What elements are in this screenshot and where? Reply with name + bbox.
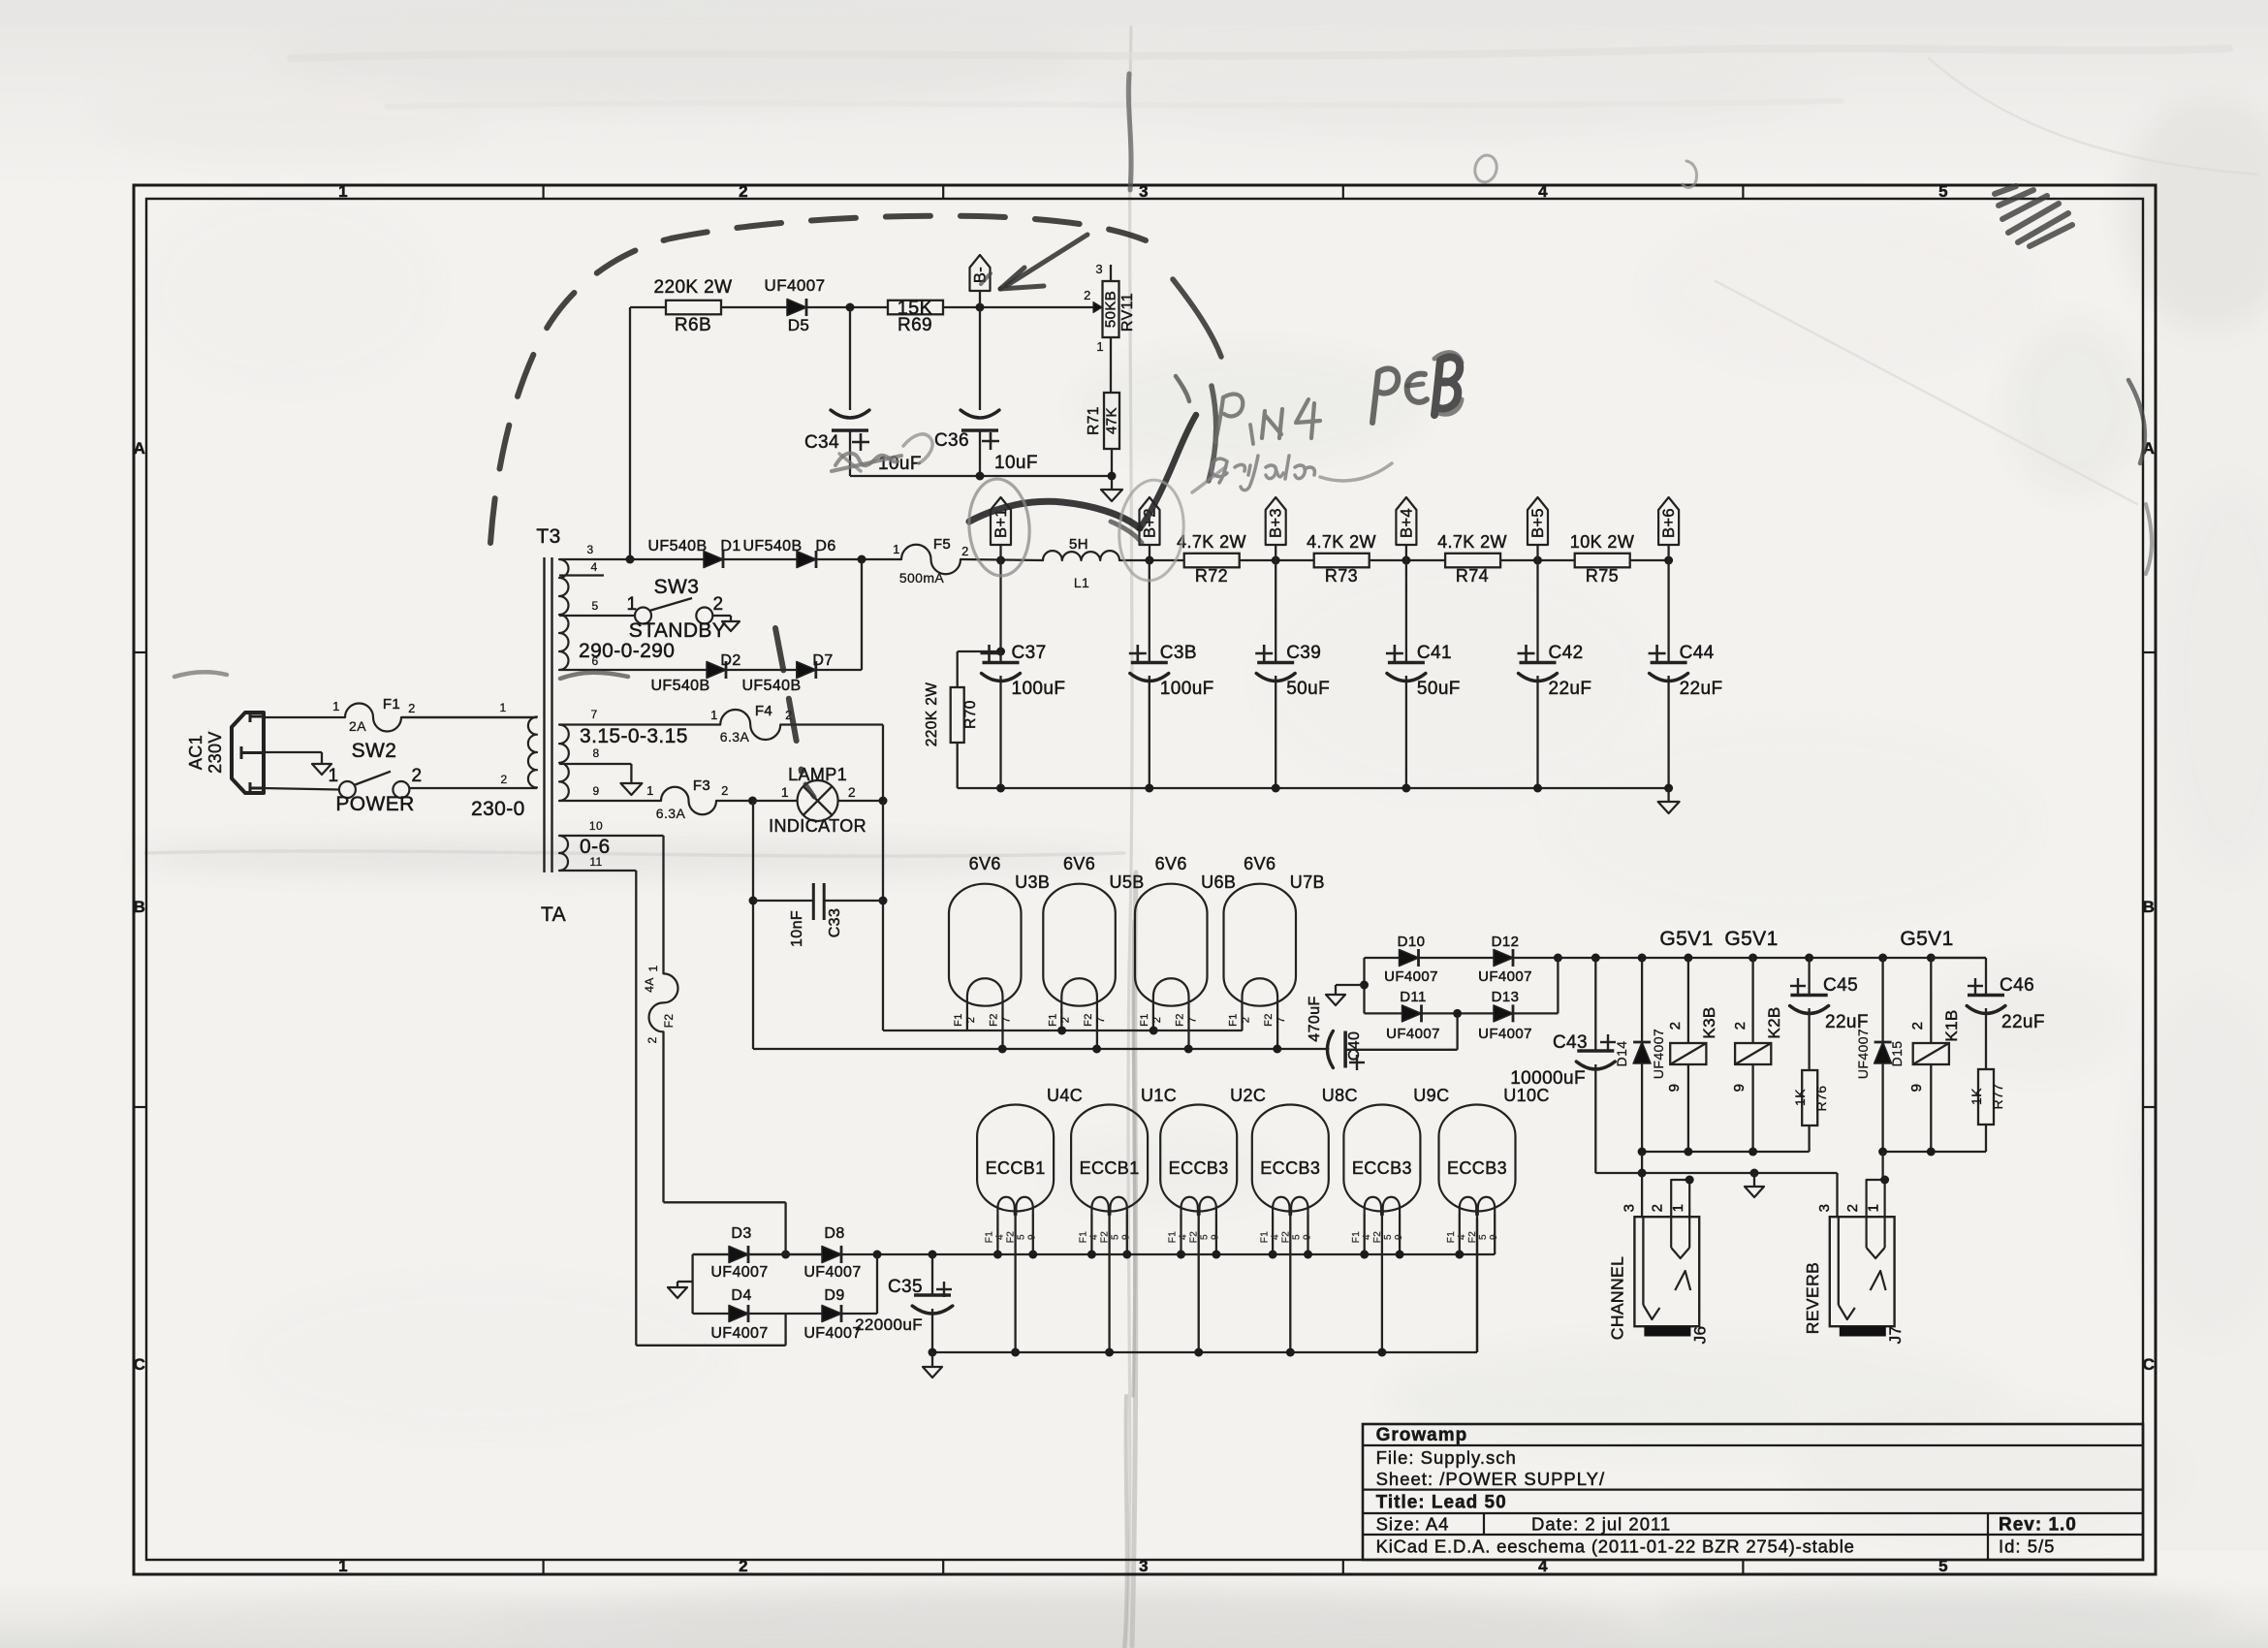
svg-text:4: 4 [1179,1234,1189,1240]
svg-text:2: 2 [713,594,724,615]
svg-text:ECCB1: ECCB1 [1080,1158,1140,1178]
svg-text:B+5: B+5 [1529,508,1547,538]
svg-text:9: 9 [592,784,599,798]
svg-text:2: 2 [1059,1017,1071,1024]
svg-text:50uF: 50uF [1417,679,1461,699]
svg-text:2: 2 [1844,1204,1861,1213]
svg-text:1: 1 [893,542,900,556]
svg-text:7: 7 [1187,1017,1199,1024]
svg-text:UF540B: UF540B [650,678,709,694]
svg-text:3: 3 [1139,1557,1149,1575]
svg-text:22uF: 22uF [1549,679,1592,699]
svg-text:UF4007: UF4007 [803,1325,861,1342]
svg-text:2: 2 [1667,1022,1684,1030]
svg-text:U10C: U10C [1503,1086,1550,1105]
svg-text:C: C [134,1355,146,1374]
svg-text:9: 9 [1027,1234,1038,1240]
svg-text:2: 2 [961,544,969,558]
svg-text:4.7K 2W: 4.7K 2W [1437,532,1507,552]
svg-text:3: 3 [1095,262,1103,276]
svg-text:2: 2 [500,773,507,786]
svg-text:10nF: 10nF [789,910,805,947]
svg-text:U8C: U8C [1322,1086,1358,1105]
svg-text:1: 1 [1670,1204,1686,1213]
svg-text:C37: C37 [1012,643,1047,663]
svg-text:9: 9 [1211,1234,1221,1240]
svg-text:10K 2W: 10K 2W [1570,532,1634,552]
svg-text:UF540B: UF540B [742,538,802,555]
svg-text:2: 2 [739,182,748,201]
svg-text:U2C: U2C [1230,1086,1266,1105]
svg-text:5: 5 [1478,1234,1489,1240]
svg-text:SW3: SW3 [654,576,700,598]
svg-text:UF4007: UF4007 [1386,1026,1440,1042]
svg-text:U3B: U3B [1015,872,1050,892]
svg-text:2: 2 [1732,1022,1748,1030]
svg-text:ECCB3: ECCB3 [1447,1158,1507,1178]
svg-text:UF4007: UF4007 [765,276,826,295]
svg-text:50uF: 50uF [1286,679,1330,699]
svg-text:KiCad E.D.A. eeschema (2011-: KiCad E.D.A. eeschema (2011-01-22 BZR 27… [1376,1537,1855,1557]
svg-text:1K: 1K [1969,1088,1984,1105]
svg-text:2: 2 [646,1036,659,1043]
svg-text:D4: D4 [731,1287,751,1304]
svg-text:F1: F1 [1168,1231,1179,1244]
svg-text:UF4007: UF4007 [710,1264,768,1281]
svg-text:2: 2 [412,766,423,786]
svg-text:6V6: 6V6 [1155,854,1187,873]
svg-text:UF4007: UF4007 [1855,1029,1871,1079]
svg-text:5: 5 [1200,1234,1211,1240]
svg-text:9: 9 [1121,1234,1132,1240]
svg-text:4: 4 [1457,1234,1467,1240]
svg-text:TA: TA [541,903,566,926]
svg-text:9: 9 [1302,1234,1312,1240]
svg-text:9: 9 [1731,1084,1748,1093]
svg-text:D1: D1 [720,538,740,555]
svg-text:F1: F1 [1228,1013,1240,1027]
svg-text:220K 2W: 220K 2W [654,277,733,298]
svg-text:A: A [134,439,146,458]
svg-text:Sheet: /POWER SUPPLY/: Sheet: /POWER SUPPLY/ [1376,1469,1606,1489]
svg-text:9: 9 [1666,1084,1683,1093]
svg-text:R6B: R6B [675,315,711,335]
svg-text:B+3: B+3 [1268,508,1285,538]
svg-text:D12: D12 [1492,934,1520,950]
svg-text:4: 4 [1362,1234,1372,1240]
svg-text:F1: F1 [953,1013,964,1027]
svg-text:2: 2 [1241,1017,1252,1024]
svg-text:6.3A: 6.3A [656,806,686,821]
svg-text:UF4007: UF4007 [803,1264,861,1281]
svg-text:47K: 47K [1104,407,1120,434]
svg-text:F2: F2 [1280,1231,1291,1244]
svg-text:2: 2 [1909,1022,1926,1030]
svg-text:ECCB3: ECCB3 [1352,1158,1412,1178]
svg-text:Date: 2 jul 2011: Date: 2 jul 2011 [1531,1514,1671,1535]
svg-text:F2: F2 [1175,1013,1186,1027]
svg-text:290-0-290: 290-0-290 [579,640,675,662]
svg-text:D8: D8 [824,1225,844,1242]
svg-text:F2: F2 [1189,1231,1200,1244]
svg-text:Size: A4: Size: A4 [1376,1514,1450,1535]
svg-text:2: 2 [1650,1204,1666,1213]
svg-text:3: 3 [1816,1204,1833,1213]
svg-text:8: 8 [592,746,599,760]
svg-text:D6: D6 [815,538,835,555]
svg-text:D9: D9 [824,1287,844,1304]
svg-text:F1: F1 [1047,1013,1058,1027]
svg-text:C: C [2143,1355,2156,1374]
svg-text:POWER: POWER [335,793,414,815]
svg-text:STANDBY: STANDBY [629,619,726,642]
svg-text:7: 7 [1001,1017,1013,1024]
svg-text:J6: J6 [1690,1326,1709,1345]
svg-text:100uF: 100uF [1012,679,1066,699]
svg-text:C39: C39 [1286,643,1321,663]
svg-text:5: 5 [1291,1234,1302,1240]
svg-text:R72: R72 [1195,566,1228,586]
svg-text:22000uF: 22000uF [855,1315,923,1334]
svg-text:C33: C33 [827,908,843,938]
svg-text:F2: F2 [1006,1231,1017,1244]
svg-text:G5V1: G5V1 [1659,928,1713,950]
svg-text:R75: R75 [1586,566,1619,586]
svg-text:AC1: AC1 [186,735,205,770]
svg-text:3: 3 [586,543,593,556]
svg-text:9: 9 [1394,1234,1404,1240]
svg-text:D14: D14 [1614,1041,1629,1067]
svg-text:3.15-0-3.15: 3.15-0-3.15 [580,725,688,747]
svg-text:C40: C40 [1346,1031,1363,1062]
svg-text:2: 2 [721,783,729,798]
svg-text:RV11: RV11 [1119,293,1136,332]
svg-text:F1: F1 [1351,1231,1362,1244]
svg-text:5: 5 [1017,1234,1027,1240]
svg-text:G5V1: G5V1 [1900,928,1953,950]
svg-text:6V6: 6V6 [1063,854,1095,873]
svg-text:REVERB: REVERB [1803,1262,1822,1334]
svg-text:1: 1 [646,783,654,798]
svg-text:B+4: B+4 [1398,508,1415,538]
svg-text:D7: D7 [812,652,833,669]
svg-text:5H: 5H [1069,536,1088,553]
svg-text:B: B [2143,898,2156,916]
svg-text:4: 4 [995,1234,1006,1240]
svg-text:U6B: U6B [1201,872,1236,892]
svg-text:UF4007: UF4007 [1478,968,1532,985]
svg-text:7: 7 [1276,1017,1287,1024]
svg-text:1: 1 [329,766,339,786]
svg-text:22uF: 22uF [2001,1012,2045,1032]
svg-text:230-0: 230-0 [471,798,525,820]
svg-text:File: Supply.sch: File: Supply.sch [1376,1447,1517,1468]
svg-text:U5B: U5B [1109,872,1144,892]
svg-text:1K: 1K [1792,1089,1808,1106]
svg-text:F1: F1 [985,1231,995,1244]
svg-text:230V: 230V [205,731,225,774]
svg-text:F3: F3 [693,777,710,794]
svg-text:1: 1 [499,701,506,714]
svg-text:2: 2 [1084,288,1091,302]
svg-text:5: 5 [591,599,598,613]
svg-text:2A: 2A [349,718,366,734]
svg-text:UF4007: UF4007 [1478,1026,1532,1042]
svg-text:U1C: U1C [1141,1086,1177,1105]
svg-text:C36: C36 [934,430,969,451]
svg-text:3: 3 [1621,1204,1637,1213]
svg-text:C44: C44 [1680,643,1715,663]
svg-text:2: 2 [965,1017,977,1024]
svg-text:5: 5 [1938,182,1948,201]
svg-text:F1: F1 [1139,1013,1150,1027]
svg-text:D10: D10 [1398,934,1426,950]
svg-text:D13: D13 [1492,989,1520,1005]
svg-text:ECCB3: ECCB3 [1169,1158,1229,1178]
svg-text:4: 4 [1270,1234,1280,1240]
svg-text:D3: D3 [731,1225,751,1242]
svg-text:F2: F2 [989,1013,1000,1027]
svg-text:Title: Lead 50: Title: Lead 50 [1376,1493,1507,1513]
svg-text:F2: F2 [1100,1231,1111,1244]
svg-text:F1: F1 [1446,1231,1457,1244]
svg-text:D5: D5 [788,316,810,334]
svg-text:1: 1 [338,1557,348,1575]
svg-text:B: B [134,898,146,916]
svg-text:F4: F4 [755,703,772,719]
svg-text:0-6: 0-6 [580,836,611,858]
svg-text:R77: R77 [1990,1084,2005,1110]
svg-text:F2: F2 [1083,1013,1094,1027]
svg-text:D15: D15 [1889,1041,1905,1067]
svg-text:T3: T3 [536,525,560,548]
svg-text:220K 2W: 220K 2W [924,682,940,747]
svg-text:Rev: 1.0: Rev: 1.0 [1999,1515,2077,1536]
svg-text:F2: F2 [1372,1231,1383,1244]
svg-text:C35: C35 [888,1277,923,1297]
svg-text:470uF: 470uF [1307,996,1323,1041]
svg-text:F1: F1 [383,696,400,713]
svg-text:2: 2 [848,784,856,800]
svg-text:J7: J7 [1886,1326,1905,1345]
svg-text:7: 7 [590,708,597,721]
svg-text:UF4007: UF4007 [1651,1029,1666,1079]
svg-text:R74: R74 [1456,566,1489,586]
svg-text:3: 3 [1139,182,1149,201]
svg-text:K2B: K2B [1765,1006,1783,1038]
svg-text:6.3A: 6.3A [720,729,750,745]
svg-text:K3B: K3B [1700,1006,1718,1038]
svg-text:7: 7 [1095,1017,1107,1024]
svg-text:ECCB3: ECCB3 [1260,1158,1320,1178]
svg-text:500mA: 500mA [899,570,945,586]
svg-text:10: 10 [589,819,603,833]
svg-text:R73: R73 [1325,566,1358,586]
svg-text:1: 1 [1096,339,1104,354]
svg-text:C34: C34 [804,432,839,453]
svg-text:INDICATOR: INDICATOR [769,816,866,836]
svg-text:6V6: 6V6 [969,854,1001,873]
svg-text:R69: R69 [898,315,932,335]
svg-text:D2: D2 [720,652,740,669]
svg-text:5: 5 [1111,1234,1121,1240]
svg-text:2: 2 [1151,1017,1163,1024]
svg-text:5: 5 [1383,1234,1394,1240]
svg-text:9: 9 [1489,1234,1499,1240]
svg-text:F2: F2 [662,1014,676,1029]
svg-text:1: 1 [332,699,340,713]
svg-text:22uF: 22uF [1680,679,1723,699]
svg-text:9: 9 [1908,1084,1925,1093]
svg-text:Id: 5/5: Id: 5/5 [1999,1537,2055,1557]
svg-text:SW2: SW2 [352,740,397,762]
svg-text:UF4007: UF4007 [1384,968,1438,985]
svg-text:10uF: 10uF [994,453,1038,473]
svg-text:F1: F1 [1259,1231,1270,1244]
svg-text:C41: C41 [1417,643,1452,663]
svg-text:L1: L1 [1074,575,1089,590]
svg-text:D11: D11 [1400,989,1427,1005]
svg-text:2: 2 [739,1557,748,1575]
svg-text:C3B: C3B [1160,643,1197,663]
svg-text:LAMP1: LAMP1 [788,765,847,784]
svg-text:4: 4 [1089,1234,1100,1240]
svg-text:4: 4 [590,560,597,574]
svg-text:C45: C45 [1823,975,1858,996]
svg-text:2: 2 [408,701,416,715]
svg-text:B+6: B+6 [1660,508,1678,538]
svg-text:F5: F5 [933,536,951,553]
svg-text:50KB: 50KB [1103,291,1119,328]
svg-text:1: 1 [710,708,718,722]
svg-text:UF4007: UF4007 [710,1325,768,1342]
svg-text:F2: F2 [1263,1013,1275,1027]
svg-text:1: 1 [338,182,348,201]
svg-text:UF540B: UF540B [741,678,801,694]
svg-text:1: 1 [627,594,638,615]
svg-text:C43: C43 [1553,1032,1588,1053]
svg-text:UF540B: UF540B [647,538,707,555]
svg-text:U4C: U4C [1047,1086,1083,1105]
svg-text:U9C: U9C [1413,1086,1449,1105]
svg-text:Growamp: Growamp [1376,1425,1468,1445]
svg-text:4.7K 2W: 4.7K 2W [1307,532,1376,552]
svg-text:K1B: K1B [1942,1009,1961,1041]
svg-text:6V6: 6V6 [1244,854,1276,873]
svg-text:U7B: U7B [1290,872,1325,892]
svg-text:CHANNEL: CHANNEL [1607,1256,1626,1340]
svg-text:C42: C42 [1549,643,1584,663]
svg-text:C46: C46 [2000,975,2034,996]
svg-text:1: 1 [646,965,660,971]
svg-text:4.7K 2W: 4.7K 2W [1177,532,1246,552]
svg-text:4: 4 [1538,182,1548,201]
svg-text:100uF: 100uF [1160,679,1214,699]
svg-text:1: 1 [781,784,789,800]
svg-text:R71: R71 [1086,406,1102,435]
svg-text:R76: R76 [1813,1086,1829,1112]
svg-text:1: 1 [1866,1204,1882,1213]
svg-text:4A: 4A [643,977,656,992]
svg-text:ECCB1: ECCB1 [986,1158,1046,1178]
svg-text:R70: R70 [962,700,979,729]
svg-text:F1: F1 [1079,1231,1089,1244]
svg-text:G5V1: G5V1 [1724,928,1778,950]
